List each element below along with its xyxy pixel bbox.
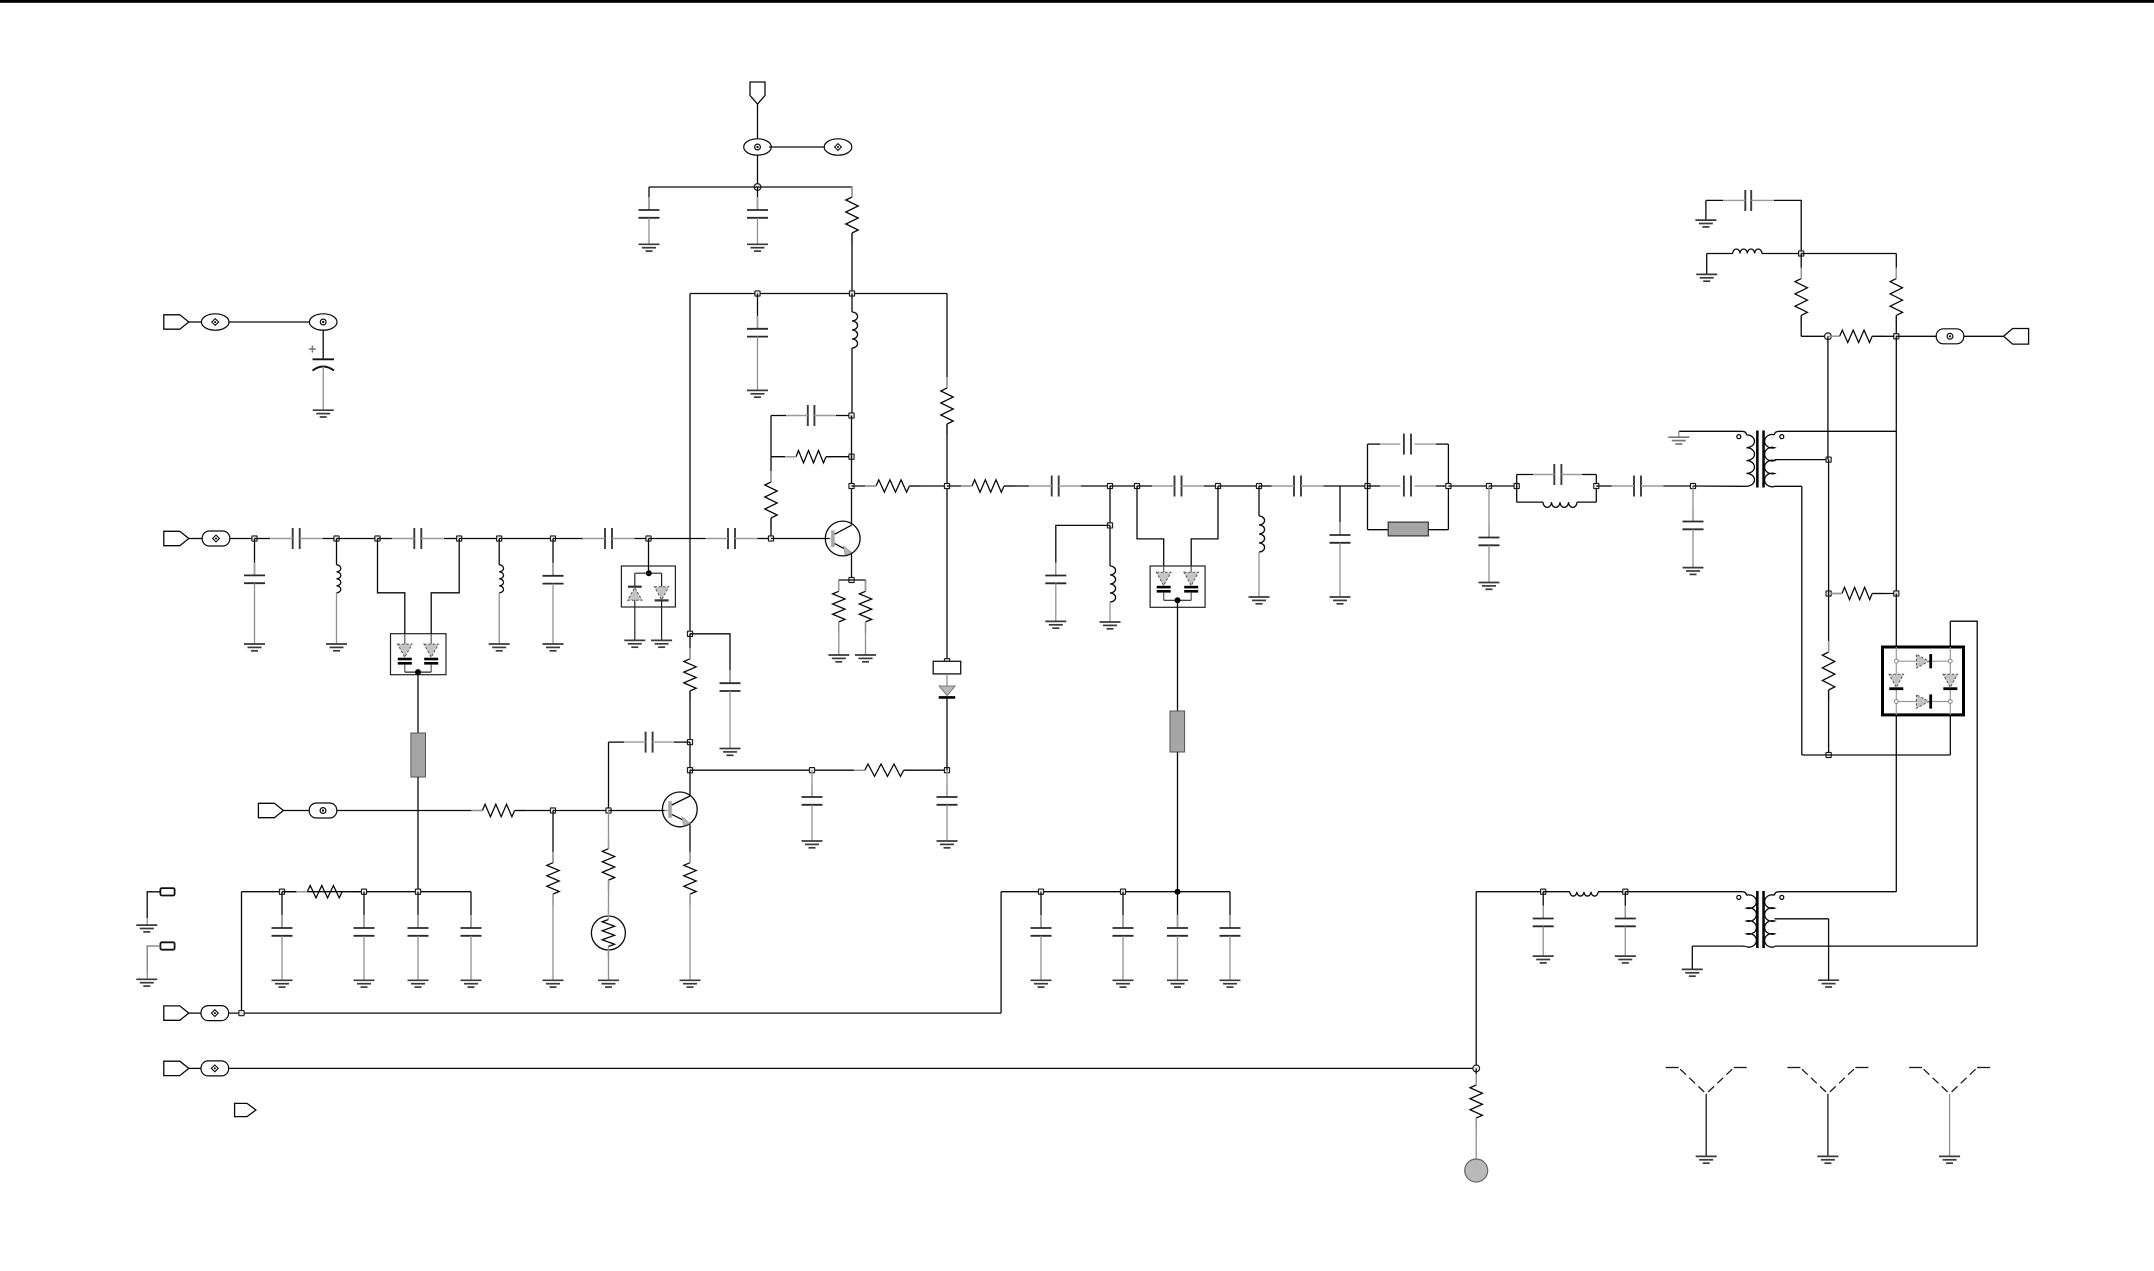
ground R6 [855, 655, 876, 662]
resistor R11 [547, 852, 559, 905]
junction LC R [1594, 483, 1599, 488]
wire T2 pri top [1625, 891, 1741, 893]
wire T2 pri gnd stem [1691, 946, 1693, 969]
capacitor C24 [1533, 464, 1582, 485]
antenna Y3 ground [1939, 1156, 1960, 1163]
wire out s12 [1448, 485, 1489, 487]
capacitor C12 [720, 670, 741, 691]
wire C32 gnd [1542, 926, 1544, 956]
wire C10 gnd [254, 583, 256, 644]
wire C31 gnd [1229, 936, 1231, 981]
resistor R8 [854, 764, 915, 776]
capacitor C17 series [1152, 476, 1204, 497]
wire D1 join [405, 671, 431, 673]
wire LC top b [1582, 474, 1596, 476]
wire row2 s6 [459, 538, 499, 540]
wire IN2 b [230, 538, 255, 540]
junction out n5 [1256, 483, 1261, 488]
capacitor C30 [1167, 915, 1188, 936]
wire R15 down [1800, 315, 1802, 336]
inductor L1 [852, 312, 858, 348]
bridge diode D6 [1889, 674, 1904, 688]
junction 1110b [1107, 523, 1112, 528]
inductor L8 [1570, 892, 1598, 896]
wire TP2 [147, 946, 160, 972]
T1 dot secondary [1780, 435, 1784, 439]
capacitor C13 [624, 732, 674, 753]
wire emitter bar [839, 579, 866, 581]
wire LC bot b [1577, 501, 1596, 503]
resistor R4 [765, 471, 777, 529]
wire row2 s10 [649, 538, 706, 540]
junction xtal L [1365, 483, 1370, 488]
wire out s7 [1137, 485, 1152, 487]
bridge pin d [1948, 700, 1952, 704]
resistor R10 [471, 804, 525, 816]
capacitor C35 [354, 915, 375, 936]
junction row3 n2 [606, 808, 611, 813]
wire bus right [1001, 891, 1230, 893]
ground C23 [1479, 583, 1500, 590]
wire D1 stem down [417, 672, 419, 733]
wire AGC drop [1827, 336, 1829, 459]
node oval IN5 [201, 1061, 229, 1076]
wire row2 s9 [635, 538, 649, 540]
wire 690 to C12 [690, 634, 730, 683]
wire row755 [1802, 754, 1951, 756]
varactor diode pair D1 box [391, 634, 447, 675]
ground C12 [720, 749, 741, 756]
junction C4 [849, 413, 854, 418]
wire T1 sec top [1780, 430, 1897, 432]
inductor L5 [1259, 516, 1265, 552]
wire C29 gnd [1122, 936, 1124, 981]
wire TR out row b [1872, 335, 1896, 337]
T2 dot primary [1737, 895, 1741, 899]
wire varactor leg R2 [1191, 486, 1218, 566]
bridge inner left [1895, 647, 1897, 715]
wire C1 stem [648, 187, 650, 210]
wire TP2 gnd [146, 972, 148, 979]
junction out n6 [1486, 483, 1491, 488]
wire R6 top [865, 580, 867, 591]
wire L5 stem [1258, 486, 1260, 516]
capacitor C21 [1380, 434, 1436, 455]
wire varactor leg L1 [378, 539, 405, 635]
wire row3 b [515, 810, 553, 812]
capacitor C8 series [583, 528, 635, 549]
capacitor C37 [461, 915, 482, 936]
resonator Y1 box [933, 661, 961, 674]
junction 690b [687, 740, 692, 745]
wire node A to node B [769, 146, 824, 148]
ferrite bead FB1 [411, 733, 426, 777]
wire T1 pri top [1679, 430, 1742, 432]
bridge diode D8 [1916, 694, 1930, 708]
wire C32 stem [1542, 892, 1544, 919]
wire C5 stem [322, 329, 324, 358]
inductor L7 [1733, 249, 1762, 254]
transistor Q2 [662, 792, 697, 827]
probe pad P1 [1465, 1159, 1488, 1182]
node oval IN3 [309, 803, 337, 818]
wire L3 gnd [498, 593, 500, 644]
wire rail2 [690, 293, 947, 295]
wire D4 join [1164, 599, 1192, 601]
test pad TP1 [160, 888, 174, 895]
bridge bottom rail [1896, 701, 1950, 703]
junction busL n3 [415, 889, 420, 894]
wire T2 tap gnd [1828, 919, 1830, 980]
thermistor RT1 [591, 909, 625, 958]
wire D2 top rail [635, 572, 662, 574]
wire R11 stem [552, 811, 554, 863]
transistor Q1 [825, 521, 860, 556]
wire C13 drop [608, 742, 610, 810]
wire row3 c [553, 810, 609, 812]
ground TR2 [1696, 274, 1717, 281]
junction busR n1 [1038, 889, 1043, 894]
wire bridge L bot [1895, 715, 1897, 892]
capacitor C4 [786, 405, 836, 426]
wire TP1 gnd [146, 918, 148, 925]
junction busL n2 [361, 889, 366, 894]
node busR n3 [1175, 889, 1181, 895]
wire flag to node [757, 104, 759, 141]
LC block frame [1517, 475, 1597, 503]
wire T1 sec tap [1775, 459, 1829, 461]
resistor R20 [296, 886, 353, 898]
wire xtal bot a [1368, 529, 1389, 531]
wire C12 gnd [729, 691, 731, 749]
wire TR out row c [1896, 335, 1937, 337]
junction row2 n3 [375, 536, 380, 541]
wire T1 sec bottom [1775, 485, 1802, 487]
wire Q2 emitter [689, 824, 691, 862]
crystal block frame [1368, 444, 1449, 530]
wire row2 to Q1 base [771, 538, 830, 540]
wire C11 stem [552, 539, 554, 576]
wire xtal top a [1368, 443, 1381, 445]
wire varactor leg L2 [431, 539, 459, 635]
capacitor C14 [802, 784, 823, 805]
ground C30 [1167, 980, 1188, 987]
wire RT1 gnd [608, 950, 610, 981]
wire C28 stem [1040, 892, 1042, 928]
resistor R5 [833, 580, 845, 633]
junction TR tap [1825, 333, 1832, 340]
resistor R16 [1890, 268, 1902, 327]
wire L5 gnd [1258, 552, 1260, 597]
ground C20 [1330, 597, 1351, 604]
capacitor C1 [639, 197, 660, 218]
wire out s6 [1110, 485, 1137, 487]
capacitor C34 [272, 915, 293, 936]
wire T2 pri bottom [1692, 945, 1741, 947]
junction row2 n6 [550, 536, 555, 541]
antenna Y1 [1666, 1068, 1747, 1157]
resistor R9 [684, 852, 696, 905]
resistor R6 [859, 580, 871, 633]
power flag terminal (top) [750, 82, 765, 104]
inductor L6 [1543, 502, 1577, 507]
junction out n7 [1690, 483, 1695, 488]
node oval OUT [1936, 329, 1964, 344]
capacitor C16 series [1029, 476, 1081, 497]
ground C37 [461, 980, 482, 987]
wire row5 riser [1475, 892, 1477, 1069]
transformer T1 primary [1742, 431, 1755, 486]
ground C32 [1533, 956, 1554, 963]
input terminal IN3 [258, 803, 283, 817]
wire bridge R top [1949, 621, 1951, 647]
plus sign [309, 346, 316, 353]
wire out s1 [852, 485, 877, 487]
wire out s11 [1324, 485, 1368, 487]
ground R11 [543, 980, 564, 987]
T2 dot secondary [1780, 895, 1784, 899]
junction 593 R [1894, 591, 1899, 596]
wire C14 stem [811, 770, 813, 797]
wire C35 gnd [363, 936, 365, 981]
wire R21 down [1475, 1118, 1477, 1159]
wire C13 row b [674, 741, 690, 743]
ground C1 [639, 244, 660, 251]
wire to C19 [1056, 525, 1110, 575]
wire xtal bot b [1428, 529, 1448, 531]
wire TR gnd1 stem [1705, 200, 1707, 220]
node oval IN4 [201, 1006, 229, 1021]
wire C3 to ground [757, 337, 759, 391]
wire row4 riser [1000, 892, 1002, 1013]
wire bus left [242, 891, 472, 893]
junction row770 c [944, 768, 949, 773]
junction rail2 mid [849, 291, 854, 296]
wire row5 [229, 1067, 1477, 1069]
wire out s4 [1004, 485, 1029, 487]
wire Q1 emitter [851, 554, 853, 581]
ground C28 [1031, 980, 1052, 987]
junction out n3 [1134, 483, 1139, 488]
junction busL n1 [279, 889, 284, 894]
wire IN4 a [189, 1012, 201, 1014]
resistor R12 [602, 838, 614, 891]
junction row2 n4 [457, 536, 462, 541]
wire C3 stem [757, 294, 759, 329]
capacitor C11 [543, 563, 564, 584]
wire D4 stem down [1177, 600, 1179, 711]
ground C3 [747, 390, 768, 397]
spare terminal flag [235, 1103, 256, 1116]
junction row770 a [809, 768, 814, 773]
T1 dot primary [1737, 435, 1741, 439]
limiter diode pair D2 box [621, 566, 675, 607]
wire C19 gnd [1055, 583, 1057, 621]
wire xtal mid a [1368, 485, 1381, 487]
wire top rail [649, 186, 852, 188]
capacitor C25 series [1612, 476, 1664, 497]
capacitor C27 series [1723, 190, 1774, 211]
antenna Y2 [1787, 1068, 1868, 1157]
wire TR cap row b [1774, 200, 1801, 253]
wire C36 stem [417, 892, 419, 928]
junction row2 n7 [646, 536, 651, 541]
capacitor C29 [1113, 915, 1134, 936]
capacitor C26 [1683, 509, 1704, 530]
ground C29 [1113, 980, 1134, 987]
wire out s13 [1489, 485, 1517, 487]
junction resonator [944, 659, 949, 664]
wire R3 row a [771, 456, 796, 458]
capacitor C23 [1479, 525, 1500, 546]
wire C29 stem [1122, 892, 1124, 928]
resistor R21 [1470, 1074, 1482, 1129]
wire IN1 b [229, 321, 309, 323]
wire R15 top [1800, 254, 1802, 279]
ground C33 [1615, 956, 1636, 963]
antenna Y3 [1909, 1068, 1990, 1157]
resistor R3 [785, 451, 837, 463]
wire L2 gnd [336, 593, 338, 644]
ground T2 pri [1682, 969, 1703, 976]
ground C10 [244, 644, 265, 651]
wire row2 s5 [444, 538, 459, 540]
ground T1 top [1668, 437, 1689, 444]
wire C4 row b [836, 415, 852, 417]
wire supply row b [1543, 891, 1570, 893]
diode D2b [654, 573, 669, 640]
varactor D4b [1184, 566, 1199, 600]
ground C2 [747, 244, 768, 251]
junction R3 [849, 454, 854, 459]
T1 core [1756, 431, 1765, 488]
inductor L4 [1110, 566, 1116, 602]
wire 1896 drop a [1895, 336, 1897, 431]
wire TR ind row b [1762, 253, 1801, 255]
wire row3 a [337, 810, 483, 812]
antenna Y1 ground [1696, 1156, 1717, 1163]
wire L1 stem [851, 294, 853, 313]
ground D2b [651, 640, 672, 647]
resistor R19 [1822, 641, 1834, 701]
input terminal IN2 [164, 531, 189, 545]
capacitor C9 series [706, 528, 758, 549]
node oval IN2 [202, 531, 230, 546]
ground TP1 [136, 925, 157, 932]
input terminal IN4 [164, 1006, 189, 1020]
wire busL res b [342, 891, 364, 893]
junction LC L [1514, 483, 1519, 488]
wire R12 stem [608, 811, 610, 849]
junction row4 [239, 1011, 244, 1016]
wire C5 to ground [322, 367, 324, 411]
wire row770 b [904, 769, 947, 771]
ground RT1 [598, 980, 619, 987]
wire 947 drop [946, 486, 948, 661]
ground C19 [1045, 621, 1066, 628]
wire 1801 drop [1801, 486, 1803, 755]
ground C11 [543, 644, 564, 651]
junction TR n2 [1894, 334, 1899, 339]
wire IN1 a [189, 321, 202, 323]
junction rail2 left [755, 291, 760, 296]
resistor R18 [1831, 587, 1883, 599]
junction TR n1 [1799, 251, 1804, 256]
wire C15 stem [946, 770, 948, 797]
wire C11 gnd [552, 584, 554, 644]
wire supply row a [1476, 891, 1543, 893]
resistor R1 [846, 186, 858, 244]
capacitor C19 [1045, 563, 1066, 584]
wire 1896 drop b [1895, 431, 1897, 593]
top border bar [0, 0, 2154, 3]
capacitor C28 [1031, 915, 1052, 936]
wire out s14 [1596, 485, 1611, 487]
varactor D1b [424, 634, 439, 672]
wire row2 s3 [337, 538, 378, 540]
wire C10 stem [254, 539, 256, 576]
wire row3 d [609, 810, 665, 812]
diode D3 [939, 686, 956, 697]
wire T2 sec top [1780, 891, 1897, 893]
wire out s5 [1081, 485, 1110, 487]
capacitor C6 series [270, 528, 322, 549]
varactor diode pair D4 box [1150, 566, 1205, 607]
ground C35 [354, 980, 375, 987]
wire T2 tap [1775, 918, 1829, 920]
wire R11 gnd [552, 894, 554, 980]
wire C26 gnd [1692, 529, 1694, 567]
wire L3 stem [498, 539, 500, 565]
wire xtal mid b [1436, 485, 1448, 487]
inductor L2 [337, 565, 341, 593]
wire R21 top [1475, 1068, 1477, 1085]
capacitor C33 [1615, 906, 1636, 927]
varactor D4a [1156, 566, 1171, 600]
wire C26 stem [1692, 486, 1694, 522]
wire Q2 collector [689, 770, 691, 796]
wire xtal top b [1436, 443, 1448, 445]
wire FB2 down [1177, 752, 1179, 892]
junction out n4 [1215, 483, 1220, 488]
wire L1 down [851, 348, 853, 416]
wire C14 gnd [811, 805, 813, 841]
ground L2 [326, 644, 347, 651]
antenna Y2 ground [1817, 1156, 1838, 1163]
wire T1 top gnd stem [1678, 431, 1680, 437]
wire C23 gnd [1488, 545, 1490, 582]
ground C14 [802, 841, 823, 848]
resistor R17 [1829, 330, 1884, 342]
ground C31 [1220, 980, 1241, 987]
wire row2 s1 [255, 538, 271, 540]
inductor L3 [499, 565, 503, 593]
wire n2 drop [1109, 486, 1111, 525]
wire supply row c [1598, 891, 1625, 893]
wire C34 gnd [281, 936, 283, 981]
wire R6 gnd [865, 622, 867, 655]
wire out s2 [909, 485, 947, 487]
wire L2 stem [336, 539, 338, 565]
wire row770 [690, 769, 865, 771]
wire R2 down [946, 424, 948, 486]
wire R16 top [1895, 254, 1897, 279]
wire R7 down [689, 691, 691, 742]
wire R5 top [838, 580, 840, 591]
capacitor C7 series [392, 528, 444, 549]
ground L4 [1100, 622, 1121, 629]
wire res row593 a [1829, 593, 1842, 595]
